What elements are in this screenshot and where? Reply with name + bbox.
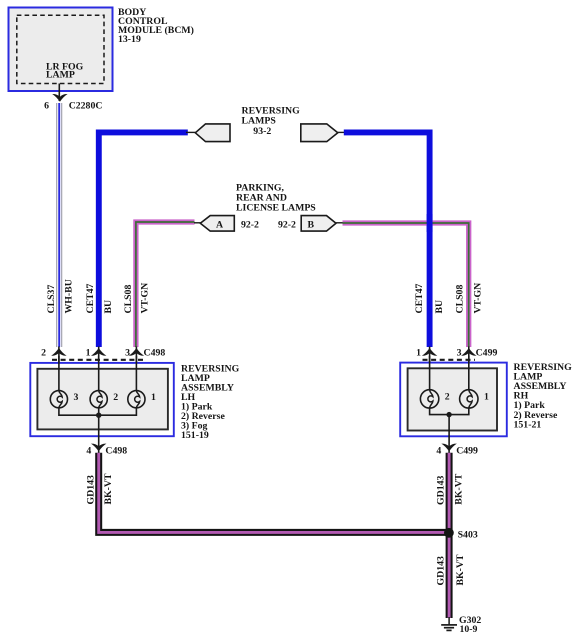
svg-text:LICENSE LAMPS: LICENSE LAMPS xyxy=(236,203,316,214)
svg-text:BK-VT: BK-VT xyxy=(455,554,466,585)
RH internal leads to bulbs xyxy=(429,356,431,391)
svg-text:GD143: GD143 xyxy=(436,556,447,585)
svg-text:S403: S403 xyxy=(458,530,478,541)
off-page connector: REVERSING LAMPS 93-2 (right, points right) xyxy=(301,124,338,142)
node: RH bus junction xyxy=(446,412,451,417)
svg-text:2: 2 xyxy=(41,348,46,359)
off-page connector: REVERSING LAMPS 93-2 (left, points left) xyxy=(195,124,230,142)
svg-text:1: 1 xyxy=(484,392,489,403)
svg-text:VT-GN: VT-GN xyxy=(473,283,484,314)
connector C2280C arrow (down) xyxy=(52,94,67,102)
ground symbol G302 xyxy=(441,625,457,631)
svg-text:3: 3 xyxy=(125,348,130,359)
connector C498 arrow pin 4 (down) xyxy=(91,444,106,452)
connector C499 arrow pin 3 xyxy=(461,348,476,356)
svg-text:1: 1 xyxy=(86,348,91,359)
wire CLS08 VT-GN left: park feed from connector A to LH pin 3 xyxy=(136,222,195,347)
node: LH bus junction xyxy=(96,413,101,418)
svg-text:151-19: 151-19 xyxy=(181,430,209,441)
svg-text:6: 6 xyxy=(44,101,49,112)
wire stub: left 93-2 connector tail xyxy=(186,131,197,133)
svg-text:CLS08: CLS08 xyxy=(455,285,466,314)
LH internal leads to bulbs xyxy=(58,356,60,391)
BCM inner dashed sub-box: LR FOG LAMP driver xyxy=(17,15,104,83)
wire CLS37 WH-BU (white/blue) from C2280C to LH pin 2 xyxy=(57,103,62,347)
svg-text:CET47: CET47 xyxy=(414,283,425,313)
LH bulb 3 (fog) xyxy=(50,391,67,408)
svg-text:2: 2 xyxy=(445,392,450,403)
svg-text:C499: C499 xyxy=(456,446,478,457)
module U: Body Control Module (BCM) box xyxy=(9,8,113,92)
wire GD143 BK-VT from RH pin 4 through S403 to ground xyxy=(446,453,453,618)
connector B (points right) xyxy=(301,216,336,232)
svg-text:C2280C: C2280C xyxy=(69,101,103,112)
connector C498 dashed interface line xyxy=(52,359,143,361)
svg-text:BK-VT: BK-VT xyxy=(454,473,465,504)
wire CET47 BU left: reversing lamps feed to LH pin 1 xyxy=(99,132,188,347)
svg-text:4: 4 xyxy=(436,446,441,457)
wire stub: right 93-2 connector tail xyxy=(338,131,345,133)
svg-text:1: 1 xyxy=(416,348,421,359)
wire CLS08 VT-GN right: park feed from connector B to RH pin 3 xyxy=(343,223,469,347)
RH bulb 1 (park) xyxy=(460,390,478,408)
svg-text:C499: C499 xyxy=(476,348,498,359)
LH assembly: pin lead stubs through connector C498 xyxy=(58,347,60,363)
LH assembly outer box xyxy=(30,363,174,436)
connector C499 arrow pin 1 xyxy=(422,348,437,356)
wire: BCM pin 6 lead xyxy=(58,84,60,102)
connector C499 dashed interface line xyxy=(423,359,476,361)
svg-text:3: 3 xyxy=(74,392,79,403)
svg-text:13-19: 13-19 xyxy=(118,34,141,45)
RH assembly: pin lead stubs through connector C499 xyxy=(429,347,431,363)
LH bulb 1 (park) xyxy=(128,391,145,408)
RH assembly inner box xyxy=(408,368,497,430)
svg-text:92-2: 92-2 xyxy=(241,219,259,230)
RH centre return lead xyxy=(448,415,450,453)
svg-text:GD143: GD143 xyxy=(436,476,447,505)
svg-text:2: 2 xyxy=(113,392,118,403)
svg-text:BU: BU xyxy=(434,300,445,314)
wire CET47 BU right crossing over VT-GN xyxy=(427,214,433,232)
svg-text:C498: C498 xyxy=(105,446,127,457)
svg-text:CET47: CET47 xyxy=(85,283,96,313)
svg-text:VT-GN: VT-GN xyxy=(139,283,150,314)
connector C498 arrow pin 3 xyxy=(129,348,144,356)
wire stub: connector A tail xyxy=(194,222,202,224)
svg-text:93-2: 93-2 xyxy=(253,126,271,137)
svg-text:CLS08: CLS08 xyxy=(123,285,134,314)
connector A (points left) xyxy=(200,216,234,232)
RH ground bus joining bulbs xyxy=(430,408,469,415)
svg-text:10-9: 10-9 xyxy=(460,624,478,635)
connector C498 arrow pin 2 xyxy=(51,348,66,356)
LH ground bus joining bulbs xyxy=(59,408,136,416)
svg-text:LAMP: LAMP xyxy=(46,70,75,81)
svg-text:92-2: 92-2 xyxy=(278,219,296,230)
svg-text:A: A xyxy=(216,219,223,230)
svg-text:WH-BU: WH-BU xyxy=(63,279,74,313)
svg-text:GD143: GD143 xyxy=(86,475,97,504)
wire stub: connector B tail xyxy=(336,222,344,224)
node: splice S403 xyxy=(444,528,454,538)
svg-text:C498: C498 xyxy=(144,348,166,359)
RH bulb 2 (reverse) xyxy=(420,390,438,408)
svg-text:1: 1 xyxy=(151,392,156,403)
ground lead stub xyxy=(448,617,450,625)
connector C498 arrow pin 1 xyxy=(91,348,106,356)
RH assembly outer box xyxy=(400,363,507,437)
LH bulb 2 (reverse) xyxy=(90,391,107,408)
svg-text:BU: BU xyxy=(103,300,114,314)
wire CET47 BU right: reversing lamps feed to RH pin 1 xyxy=(344,132,430,347)
svg-text:CLS37: CLS37 xyxy=(46,285,57,314)
LH assembly inner box xyxy=(37,369,168,430)
svg-text:3: 3 xyxy=(457,348,462,359)
svg-text:B: B xyxy=(308,219,315,230)
svg-text:151-21: 151-21 xyxy=(514,419,542,430)
LH centre return lead xyxy=(98,408,100,453)
svg-text:BK-VT: BK-VT xyxy=(103,473,114,504)
wire GD143 BK-VT from LH pin 4 to S403 xyxy=(99,453,449,533)
connector C499 arrow pin 4 (down) xyxy=(441,444,456,452)
svg-text:4: 4 xyxy=(86,446,91,457)
